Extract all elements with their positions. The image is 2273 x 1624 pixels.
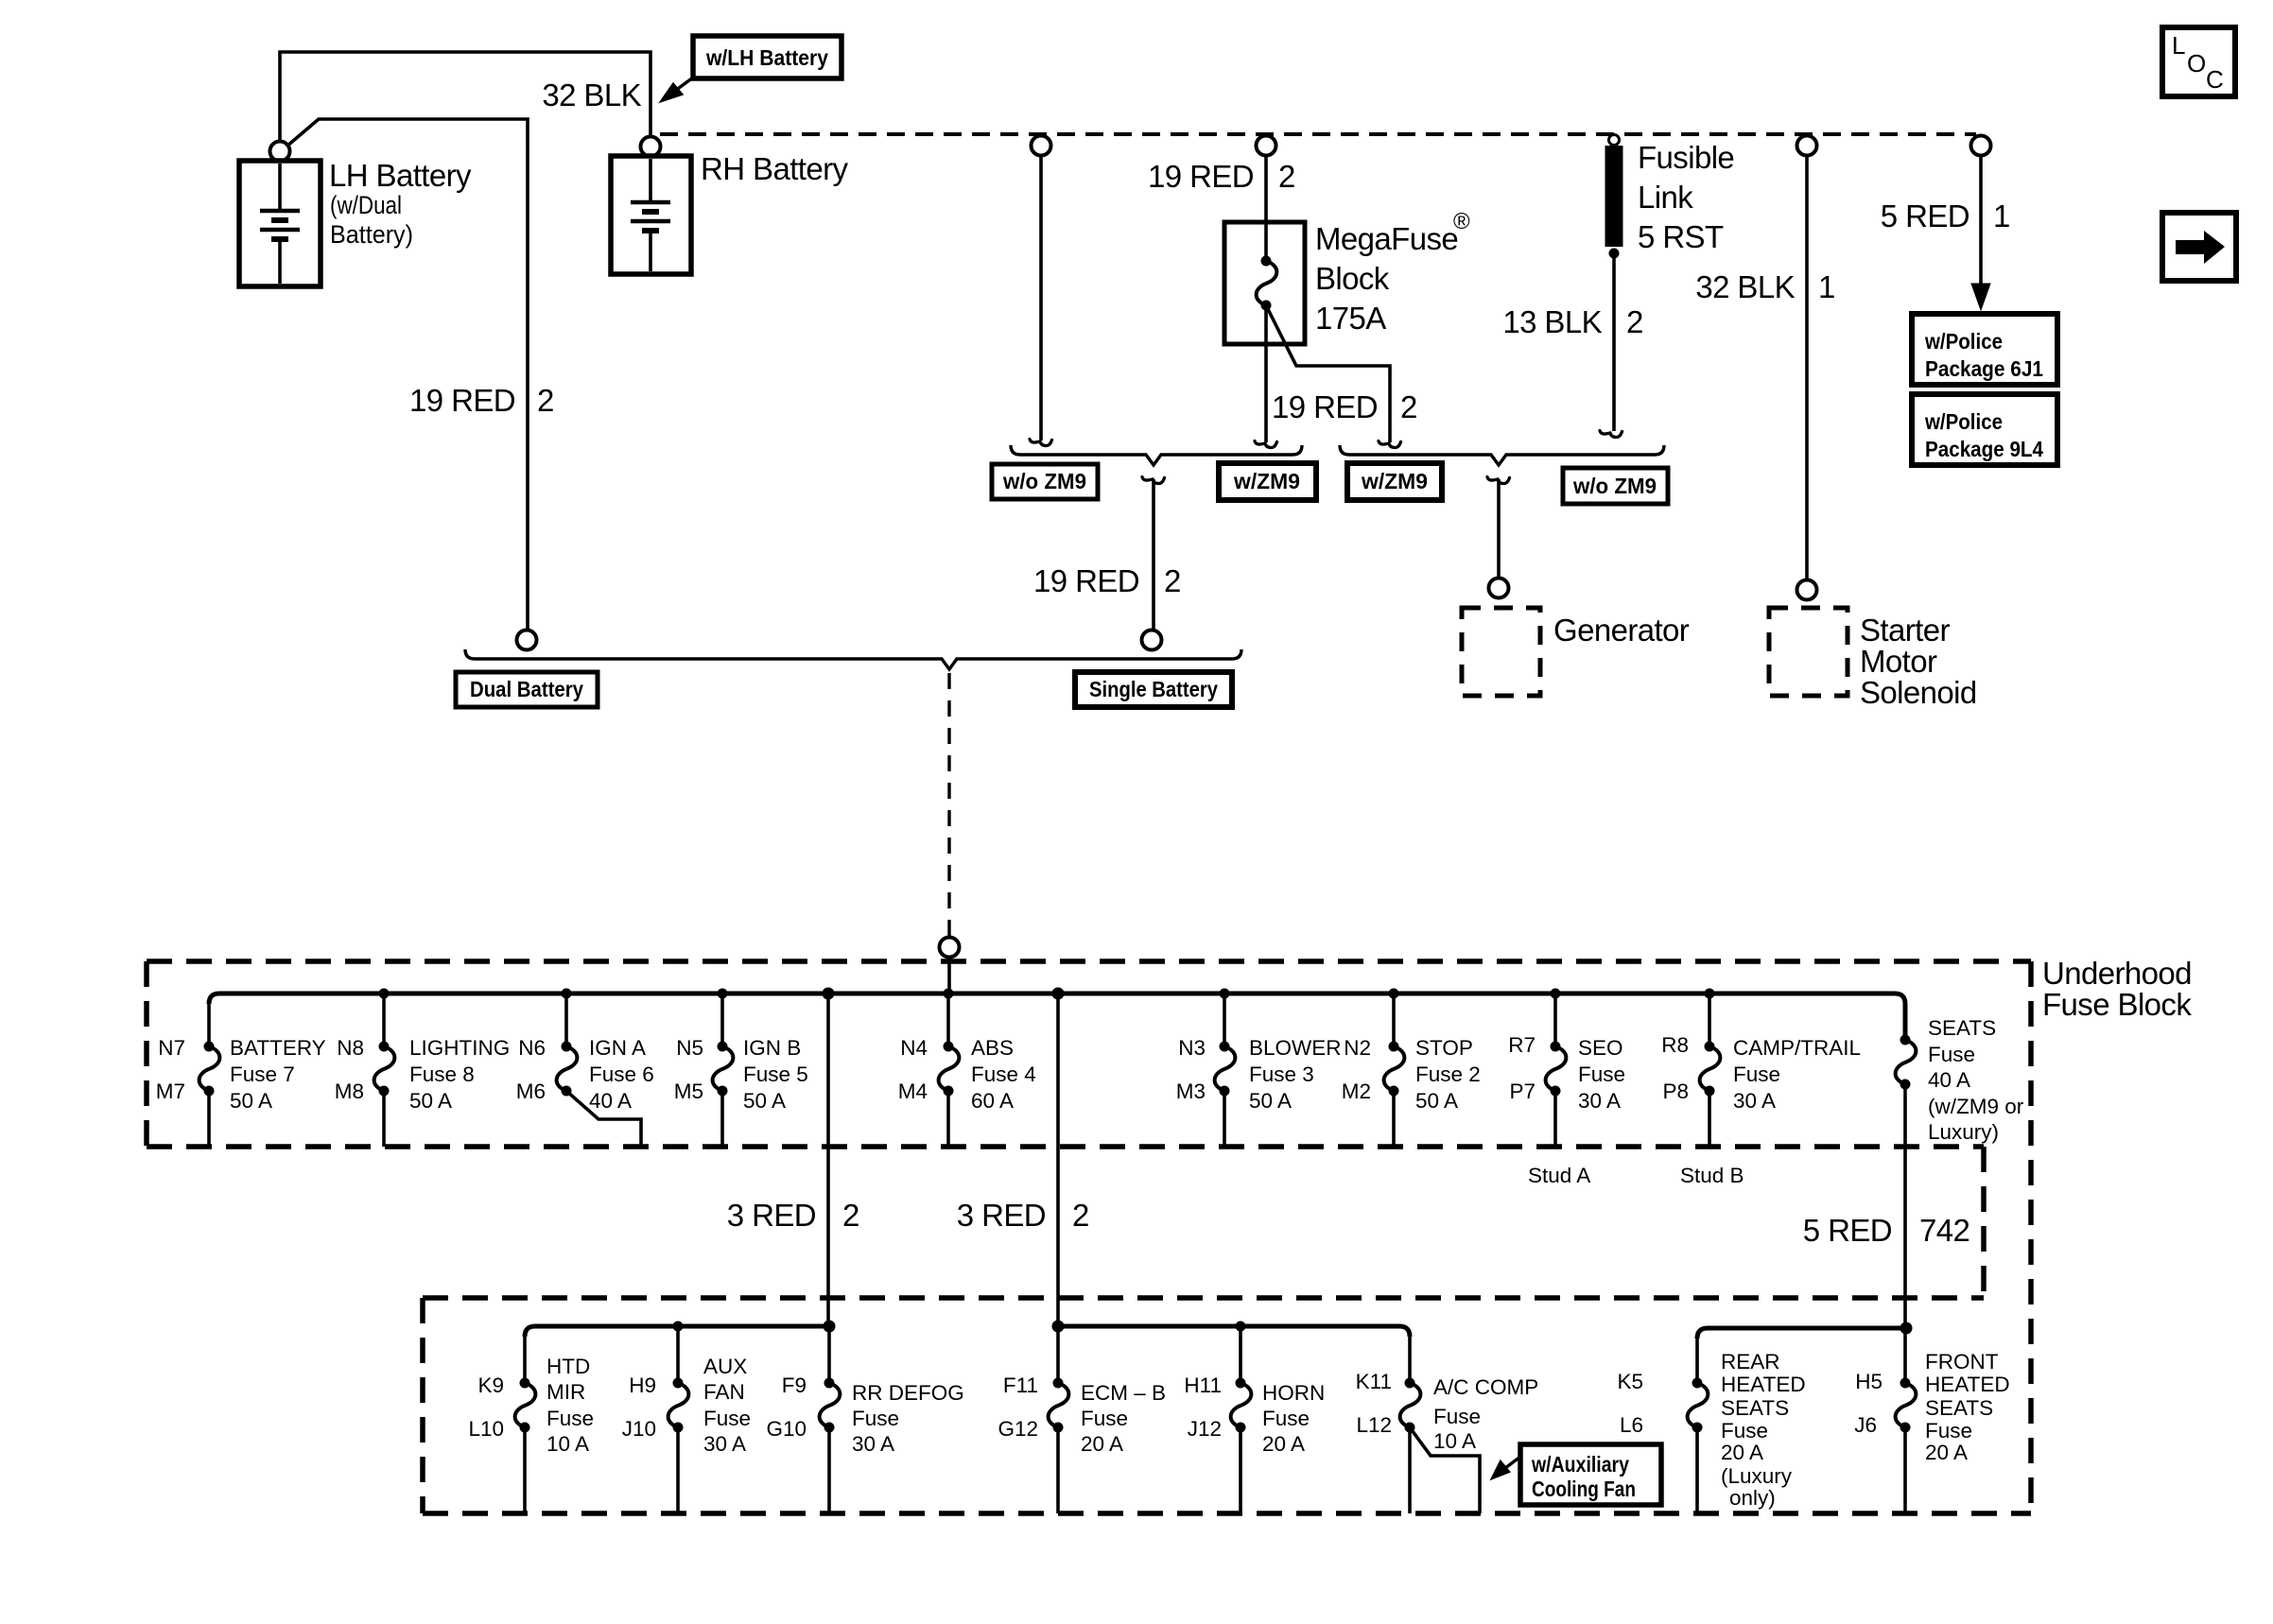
svg-text:C: C [2206, 65, 2224, 94]
battery LH terminal [270, 142, 290, 162]
lower fuse block (dashed box) [423, 1298, 2031, 1513]
svg-text:30 A: 30 A [1733, 1089, 1776, 1113]
svg-text:N8: N8 [337, 1036, 364, 1060]
svg-text:A/C COMP: A/C COMP [1433, 1375, 1538, 1399]
svg-text:w/o ZM9: w/o ZM9 [1002, 469, 1086, 493]
svg-text:ABS: ABS [971, 1036, 1014, 1060]
svg-text:20 A: 20 A [1925, 1441, 1968, 1464]
svg-text:BATTERY: BATTERY [230, 1036, 326, 1060]
svg-text:P7: P7 [1509, 1080, 1536, 1103]
svg-text:M7: M7 [156, 1080, 185, 1103]
svg-text:w/LH Battery: w/LH Battery [705, 45, 828, 70]
svg-text:Fuse: Fuse [1433, 1405, 1481, 1428]
callout box w/Police Package 9L4 [1912, 394, 2057, 465]
node circle MegaFuse branch [1257, 136, 1276, 156]
svg-text:40 A: 40 A [589, 1089, 632, 1113]
svg-text:30 A: 30 A [703, 1432, 746, 1456]
generator (dashed outline) [1462, 608, 1540, 696]
node circle fuse block feed [940, 938, 960, 958]
svg-text:(w/Dual: (w/Dual [330, 191, 402, 219]
wire 32 BLK between batteries [280, 52, 651, 142]
svg-text:K11: K11 [1356, 1370, 1392, 1393]
svg-text:SEO: SEO [1578, 1036, 1623, 1060]
svg-text:30 A: 30 A [852, 1432, 894, 1456]
svg-text:K9: K9 [477, 1373, 504, 1397]
wire 3 RED feeder 2 to lower bus [1056, 993, 1060, 1326]
wire MegaFuse output straight down (w/ZM9) [1264, 305, 1268, 442]
svg-text:50 A: 50 A [1249, 1089, 1292, 1113]
fuse RR DEFOG 30A [827, 1326, 831, 1383]
svg-text:M4: M4 [898, 1080, 928, 1103]
battery RH [611, 156, 691, 274]
wire from brace 1 to single battery junction [1142, 477, 1165, 484]
svg-text:P8: P8 [1662, 1080, 1689, 1103]
svg-text:CAMP/TRAIL: CAMP/TRAIL [1733, 1036, 1861, 1060]
node circle police package branch [1971, 136, 1991, 156]
callout box w/o ZM9 (2) [1563, 468, 1668, 504]
svg-text:M2: M2 [1342, 1080, 1371, 1103]
fuse A/C COMP 10A [1408, 1337, 1412, 1383]
svg-text:(Luxury: (Luxury [1721, 1464, 1793, 1488]
svg-text:STOP: STOP [1415, 1036, 1473, 1060]
svg-text:IGN A: IGN A [589, 1036, 646, 1060]
svg-text:5 RED: 5 RED [1881, 199, 1969, 233]
svg-text:N2: N2 [1344, 1036, 1371, 1060]
svg-text:32 BLK: 32 BLK [1695, 269, 1795, 304]
fuse 4 ABS 60A [946, 993, 950, 1046]
svg-text:50 A: 50 A [230, 1089, 272, 1113]
svg-text:Underhood: Underhood [2042, 956, 2192, 991]
svg-text:M8: M8 [335, 1080, 364, 1103]
svg-text:HORN: HORN [1262, 1381, 1325, 1405]
svg-text:Fuse: Fuse [1721, 1419, 1768, 1443]
svg-text:REAR: REAR [1721, 1350, 1780, 1373]
svg-text:Fuse: Fuse [852, 1407, 899, 1430]
svg-text:L10: L10 [468, 1417, 504, 1441]
brace ZM9 group 2 [1340, 445, 1664, 465]
svg-text:K5: K5 [1617, 1370, 1643, 1393]
callout box w/Police Package 6J1 [1912, 314, 2057, 385]
MegaFuse block 175A [1224, 222, 1305, 344]
svg-text:Fuse: Fuse [1578, 1063, 1625, 1086]
wire A/C COMP auxiliary fan branch [1410, 1427, 1480, 1513]
svg-text:19 RED: 19 RED [409, 383, 515, 418]
wire 5 RED 742 from SEATS fuse to lower bus [1903, 1084, 1907, 1328]
svg-text:Fusible: Fusible [1638, 140, 1734, 175]
lower bus segment B [1058, 1326, 1410, 1337]
svg-text:10 A: 10 A [547, 1432, 589, 1456]
svg-text:Fuse Block: Fuse Block [2042, 987, 2192, 1022]
svg-text:50 A: 50 A [743, 1089, 786, 1113]
svg-text:2: 2 [842, 1198, 859, 1233]
svg-text:20 A: 20 A [1081, 1432, 1123, 1456]
arrow from w/Auxiliary Cooling Fan callout [1505, 1457, 1520, 1468]
svg-text:5 RST: 5 RST [1638, 219, 1724, 254]
page continuation arrow symbol [2162, 213, 2236, 281]
svg-text:Package 6J1: Package 6J1 [1925, 356, 2043, 381]
svg-text:1: 1 [1993, 199, 2010, 233]
svg-text:3 RED: 3 RED [727, 1198, 816, 1233]
svg-text:Fuse: Fuse [547, 1407, 594, 1430]
svg-text:G10: G10 [766, 1417, 807, 1441]
callout box w/Auxiliary Cooling Fan [1520, 1444, 1661, 1505]
svg-text:50 A: 50 A [409, 1089, 452, 1113]
svg-text:R7: R7 [1508, 1033, 1536, 1057]
svg-text:Cooling Fan: Cooling Fan [1532, 1477, 1636, 1501]
svg-text:2: 2 [1072, 1198, 1089, 1233]
battery RH terminal [641, 137, 661, 157]
svg-text:w/Police: w/Police [1924, 329, 2003, 354]
node circle dual battery junction [517, 631, 537, 650]
svg-text:LIGHTING: LIGHTING [409, 1036, 510, 1060]
svg-text:N5: N5 [676, 1036, 703, 1060]
node circle w/o ZM9 branch [1032, 136, 1051, 156]
svg-text:30 A: 30 A [1578, 1089, 1621, 1113]
svg-text:Solenoid: Solenoid [1860, 675, 1977, 710]
svg-text:32 BLK: 32 BLK [542, 78, 641, 112]
fuse SEO 30A [1553, 993, 1557, 1046]
svg-text:Fuse 8: Fuse 8 [409, 1063, 475, 1086]
lower bus segment A [525, 1326, 829, 1337]
svg-text:HEATED: HEATED [1721, 1373, 1806, 1396]
svg-text:40 A: 40 A [1928, 1068, 1970, 1092]
svg-text:2: 2 [1164, 563, 1181, 598]
svg-text:2: 2 [1278, 159, 1295, 194]
fuse CAMP/TRAIL 30A [1708, 993, 1711, 1046]
svg-text:Fuse 6: Fuse 6 [589, 1063, 654, 1086]
svg-text:w/o ZM9: w/o ZM9 [1572, 474, 1657, 498]
fuse REAR HEATED SEATS 20A [1695, 1339, 1699, 1383]
svg-text:Fuse 7: Fuse 7 [230, 1063, 295, 1086]
wire 5 RED with arrow to police package [1979, 155, 1983, 285]
svg-text:13 BLK: 13 BLK [1502, 304, 1602, 339]
fuse 2 STOP 50A [1392, 993, 1396, 1046]
callout box w/LH Battery [693, 36, 842, 78]
callout box Dual Battery [456, 672, 598, 707]
dashed feed bus from RH battery [660, 132, 1976, 136]
fuse HORN 20A [1239, 1326, 1242, 1383]
wire 13 BLK below fusible link [1612, 253, 1616, 431]
svg-text:2: 2 [1400, 389, 1417, 424]
svg-text:L12: L12 [1356, 1413, 1392, 1437]
svg-text:LH Battery: LH Battery [329, 158, 472, 193]
svg-text:M3: M3 [1176, 1080, 1206, 1103]
svg-text:IGN B: IGN B [743, 1036, 801, 1060]
svg-text:w/Auxiliary: w/Auxiliary [1531, 1452, 1629, 1477]
svg-text:M5: M5 [674, 1080, 703, 1103]
svg-text:Luxury): Luxury) [1928, 1120, 1999, 1144]
fuse 6 IGN A 40A [564, 993, 568, 1046]
svg-text:MIR: MIR [547, 1380, 585, 1404]
wire 3 RED feeder 1 to lower bus [826, 993, 830, 1326]
svg-text:H11: H11 [1184, 1373, 1222, 1397]
fuse 7 BATTERY 50A [207, 1004, 211, 1046]
underhood fuse block (dashed box) [147, 961, 2031, 1513]
fuse ECM-B 20A [1056, 1326, 1060, 1383]
svg-text:G12: G12 [998, 1417, 1038, 1441]
svg-text:50 A: 50 A [1415, 1089, 1458, 1113]
svg-text:Dual Battery: Dual Battery [470, 677, 583, 701]
callout box w/o ZM9 (1) [992, 464, 1098, 499]
svg-text:®: ® [1453, 209, 1470, 234]
arrow from w/LH Battery callout to wire [675, 78, 693, 91]
svg-text:BLOWER: BLOWER [1249, 1036, 1342, 1060]
svg-text:only): only) [1729, 1486, 1776, 1510]
svg-text:Single Battery: Single Battery [1089, 677, 1218, 701]
svg-text:J10: J10 [622, 1417, 656, 1441]
svg-text:F11: F11 [1003, 1373, 1038, 1397]
svg-text:H5: H5 [1855, 1370, 1883, 1393]
svg-text:R8: R8 [1661, 1033, 1689, 1057]
fuse 3 BLOWER 50A [1223, 993, 1226, 1046]
svg-text:HTD: HTD [547, 1355, 590, 1378]
svg-text:Fuse: Fuse [1925, 1419, 1972, 1443]
svg-text:Stud B: Stud B [1680, 1164, 1744, 1187]
fuse AUX FAN 30A [676, 1326, 680, 1383]
svg-text:19 RED: 19 RED [1272, 389, 1378, 424]
svg-text:Fuse: Fuse [1928, 1043, 1975, 1066]
fuse FRONT HEATED SEATS 20A [1903, 1328, 1907, 1383]
fuse block bus [209, 993, 1905, 1040]
wire MegaFuse output jog to right branch [1266, 305, 1390, 442]
svg-text:ECM – B: ECM – B [1081, 1381, 1166, 1405]
fuse SEATS 40A [1896, 1035, 1917, 1090]
svg-text:5 RED: 5 RED [1803, 1213, 1892, 1248]
svg-text:HEATED: HEATED [1925, 1373, 2010, 1396]
svg-text:SEATS: SEATS [1925, 1396, 1993, 1420]
svg-text:19 RED: 19 RED [1148, 159, 1254, 194]
svg-text:FRONT: FRONT [1925, 1350, 1999, 1373]
svg-text:19 RED: 19 RED [1033, 563, 1139, 598]
svg-text:Link: Link [1638, 180, 1693, 215]
starter motor solenoid (dashed outline) [1769, 608, 1848, 696]
fuse HTD MIR 10A [523, 1337, 527, 1383]
svg-text:Motor: Motor [1860, 644, 1937, 679]
node circle single battery junction [1142, 631, 1162, 650]
svg-text:60 A: 60 A [971, 1089, 1014, 1113]
svg-text:J6: J6 [1854, 1413, 1877, 1437]
svg-text:Package 9L4: Package 9L4 [1925, 437, 2043, 461]
svg-text:N6: N6 [518, 1036, 546, 1060]
svg-text:SEATS: SEATS [1721, 1396, 1789, 1420]
brace ZM9 group 1 [1011, 445, 1302, 465]
svg-text:AUX: AUX [703, 1355, 747, 1378]
svg-text:O: O [2187, 49, 2206, 78]
svg-text:RH Battery: RH Battery [701, 151, 848, 186]
svg-text:FAN: FAN [703, 1380, 745, 1404]
svg-text:Fuse 3: Fuse 3 [1249, 1063, 1314, 1086]
svg-text:w/Police: w/Police [1924, 409, 2003, 434]
junction dots on bus [379, 988, 1715, 1000]
wire from brace 2 to generator [1487, 477, 1510, 484]
dashed wire from battery brace to fuse block [947, 673, 950, 938]
lower bus segment C [1697, 1328, 1906, 1339]
svg-text:Fuse: Fuse [1262, 1407, 1310, 1430]
svg-text:Starter: Starter [1860, 613, 1950, 648]
svg-text:RR DEFOG: RR DEFOG [852, 1381, 964, 1405]
svg-text:F9: F9 [782, 1373, 807, 1397]
svg-text:Fuse 2: Fuse 2 [1415, 1063, 1481, 1086]
svg-text:742: 742 [1919, 1213, 1969, 1248]
brace dual/single battery [465, 649, 1241, 669]
svg-text:Battery): Battery) [330, 220, 413, 249]
wire 32 BLK to starter motor solenoid [1805, 155, 1809, 580]
svg-text:2: 2 [537, 383, 554, 418]
starter solenoid terminal [1797, 580, 1817, 600]
svg-text:Fuse: Fuse [1081, 1407, 1128, 1430]
svg-text:3 RED: 3 RED [957, 1198, 1046, 1233]
svg-text:10 A: 10 A [1433, 1429, 1476, 1453]
svg-text:Block: Block [1315, 261, 1390, 296]
svg-text:J12: J12 [1188, 1417, 1222, 1441]
svg-text:N7: N7 [158, 1036, 185, 1060]
svg-text:MegaFuse: MegaFuse [1315, 221, 1458, 256]
svg-text:Fuse 4: Fuse 4 [971, 1063, 1036, 1086]
fuse 5 IGN B 50A [720, 993, 724, 1046]
svg-text:L6: L6 [1620, 1413, 1643, 1437]
svg-text:Stud A: Stud A [1528, 1164, 1590, 1187]
svg-text:H9: H9 [629, 1373, 656, 1397]
fuse 8 LIGHTING 50A [382, 993, 386, 1046]
svg-text:Generator: Generator [1553, 613, 1690, 648]
wire 19 RED to MegaFuse block [1264, 155, 1268, 261]
svg-text:Fuse: Fuse [1733, 1063, 1780, 1086]
svg-text:Fuse 5: Fuse 5 [743, 1063, 808, 1086]
callout box w/ZM9 (2) [1347, 463, 1442, 500]
fusible link 5 RST [1609, 135, 1620, 146]
wire w/o ZM9 branch [1039, 155, 1043, 441]
svg-text:2: 2 [1626, 304, 1643, 339]
LOC reference symbol [2162, 27, 2235, 96]
callout box Single Battery [1075, 672, 1232, 707]
wire feed into fuse block bus [947, 957, 951, 993]
node circle starter branch [1797, 136, 1817, 156]
svg-text:L: L [2172, 31, 2185, 60]
svg-text:N3: N3 [1178, 1036, 1206, 1060]
junction dots on lower buses [673, 1321, 1913, 1335]
svg-text:1: 1 [1818, 269, 1835, 304]
svg-text:N4: N4 [900, 1036, 928, 1060]
svg-text:20 A: 20 A [1262, 1432, 1305, 1456]
wire 19 RED from LH battery to Dual Battery junction [286, 119, 528, 631]
svg-text:175A: 175A [1315, 301, 1386, 336]
svg-text:(w/ZM9 or: (w/ZM9 or [1928, 1095, 2024, 1118]
svg-text:Fuse: Fuse [703, 1407, 751, 1430]
battery LH [239, 161, 321, 286]
svg-text:M6: M6 [516, 1080, 546, 1103]
svg-text:SEATS: SEATS [1928, 1016, 1996, 1040]
callout box w/ZM9 (1) [1219, 463, 1316, 500]
svg-text:w/ZM9: w/ZM9 [1233, 469, 1300, 493]
svg-text:w/ZM9: w/ZM9 [1361, 469, 1428, 493]
svg-text:20 A: 20 A [1721, 1441, 1763, 1464]
